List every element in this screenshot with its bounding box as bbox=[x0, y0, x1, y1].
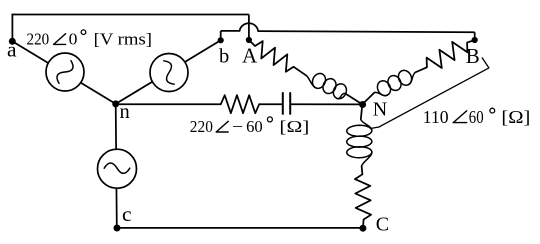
svg-text:A: A bbox=[242, 44, 258, 68]
svg-text:60: 60 bbox=[246, 117, 263, 136]
node B bbox=[472, 37, 478, 43]
inductor branch A-N bbox=[307, 73, 347, 98]
node A bbox=[246, 37, 252, 43]
wire resistor to inductor A-N bbox=[294, 67, 307, 76]
wire a to n diagonal bbox=[12, 41, 115, 104]
wire N to inductor N-B bbox=[362, 92, 374, 104]
node c bbox=[114, 225, 121, 232]
svg-text:220: 220 bbox=[27, 29, 50, 48]
wire bus b to hop bbox=[221, 30, 240, 32]
capacitor line n-N bbox=[283, 92, 290, 115]
svg-text:110: 110 bbox=[423, 107, 449, 127]
node C bbox=[359, 225, 366, 232]
wire b riser bbox=[220, 31, 222, 40]
wire A riser bbox=[248, 15, 250, 41]
wire resistor to C bbox=[362, 220, 365, 229]
brace for 110 ohm label bbox=[371, 58, 489, 129]
wire bus hop to B bbox=[258, 31, 475, 32]
wire resistor to B bbox=[467, 40, 475, 43]
svg-text:a: a bbox=[7, 38, 17, 62]
resistor line n-N bbox=[221, 95, 259, 113]
node b bbox=[218, 37, 224, 43]
crossover hop bbox=[240, 23, 259, 31]
label 110 angle 60 ohm bbox=[423, 107, 531, 127]
wire n to resistor bbox=[116, 103, 221, 105]
wire n to c vertical bbox=[116, 104, 117, 228]
wire bottom bus c to C bbox=[117, 227, 363, 229]
wire n to b diagonal bbox=[116, 40, 221, 104]
ac source phase c bbox=[98, 149, 137, 188]
wire resistor to capacitor bbox=[259, 103, 283, 105]
wire inductor to resistor N-B bbox=[415, 67, 427, 72]
label 220 angle -60 ohm bbox=[190, 117, 310, 136]
svg-text:[Ω]: [Ω] bbox=[279, 117, 309, 136]
svg-text:B: B bbox=[466, 44, 480, 68]
ac source phase b bbox=[150, 54, 188, 92]
wire N to inductor N-C bbox=[361, 104, 363, 119]
wire capacitor to N bbox=[290, 103, 362, 105]
wire B riser bbox=[474, 32, 476, 40]
wire A to resistor bbox=[249, 40, 255, 46]
svg-text:0: 0 bbox=[69, 29, 78, 48]
svg-text:C: C bbox=[376, 214, 389, 236]
resistor branch N-C bbox=[355, 174, 371, 219]
node a bbox=[9, 38, 16, 45]
wire inductor to N bbox=[345, 93, 362, 104]
svg-text:b: b bbox=[219, 46, 229, 68]
svg-text:n: n bbox=[120, 101, 130, 123]
wire inductor to resistor N-C bbox=[361, 166, 364, 174]
node N bbox=[359, 101, 366, 108]
svg-text:[Ω]: [Ω] bbox=[501, 107, 530, 127]
svg-text:[V rms]: [V rms] bbox=[94, 29, 152, 48]
svg-text:N: N bbox=[373, 99, 387, 121]
svg-text:c: c bbox=[122, 202, 132, 226]
inductor branch N-B bbox=[375, 70, 415, 95]
resistor branch A-N bbox=[255, 41, 294, 72]
svg-text:220: 220 bbox=[190, 117, 213, 136]
svg-text:−: − bbox=[232, 117, 243, 136]
node n bbox=[112, 100, 119, 107]
wire a riser bbox=[11, 14, 13, 42]
ac source phase a bbox=[46, 53, 84, 91]
svg-text:60: 60 bbox=[469, 107, 484, 127]
label 220 angle 0 V rms bbox=[27, 29, 153, 48]
resistor branch N-B bbox=[427, 42, 468, 68]
wire top bus a to A bbox=[12, 14, 249, 16]
inductor branch N-C bbox=[347, 120, 372, 167]
